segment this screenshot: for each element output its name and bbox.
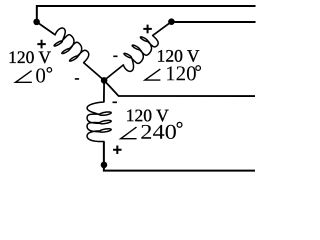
wire top line 1 with corner down to node A (37, 6, 256, 22)
three-phase four-wire Y-connected source schematic (0, 0, 260, 178)
node B phase-2 terminal (168, 18, 175, 25)
wire winding 2 to node B (153, 22, 172, 36)
angle symbol of winding 3 label (121, 127, 137, 139)
wire winding 3 to bottom line 4 with corner (104, 141, 255, 170)
polarity minus of winding 1 (75, 78, 79, 80)
degree mark winding 1 (47, 68, 52, 73)
neutral node N (101, 77, 108, 84)
polarity plus of winding 3 (113, 145, 122, 154)
node A phase-1 terminal (33, 19, 40, 26)
wire line 2 (171, 21, 255, 23)
wire node A to winding 1 (37, 22, 56, 35)
node C phase-3 terminal (101, 162, 108, 169)
degree mark winding 2 (196, 66, 201, 71)
angle symbol of winding 2 label (145, 69, 161, 80)
angle symbol of winding 1 label (16, 71, 32, 83)
wire N to winding 2 (104, 65, 123, 81)
wire winding 1 to neutral node N (84, 63, 105, 81)
inductor winding 2 (120 V 120deg) (123, 36, 158, 72)
svg-text:0: 0 (35, 63, 46, 87)
svg-text:120: 120 (165, 61, 197, 85)
polarity minus of winding 2 (113, 55, 117, 57)
degree mark winding 3 (177, 122, 182, 127)
polarity minus of winding 3 (112, 101, 117, 103)
inductor winding 1 (120 V 0deg) (54, 28, 89, 63)
svg-text:240: 240 (140, 120, 177, 144)
polarity plus of winding 1 (37, 40, 46, 49)
wire N down to winding 3 (103, 80, 105, 102)
polarity plus of winding 2 (143, 25, 152, 34)
inductor winding 3 (120 V 240deg) (87, 102, 111, 142)
neutral wire N to line 3 (104, 80, 255, 96)
